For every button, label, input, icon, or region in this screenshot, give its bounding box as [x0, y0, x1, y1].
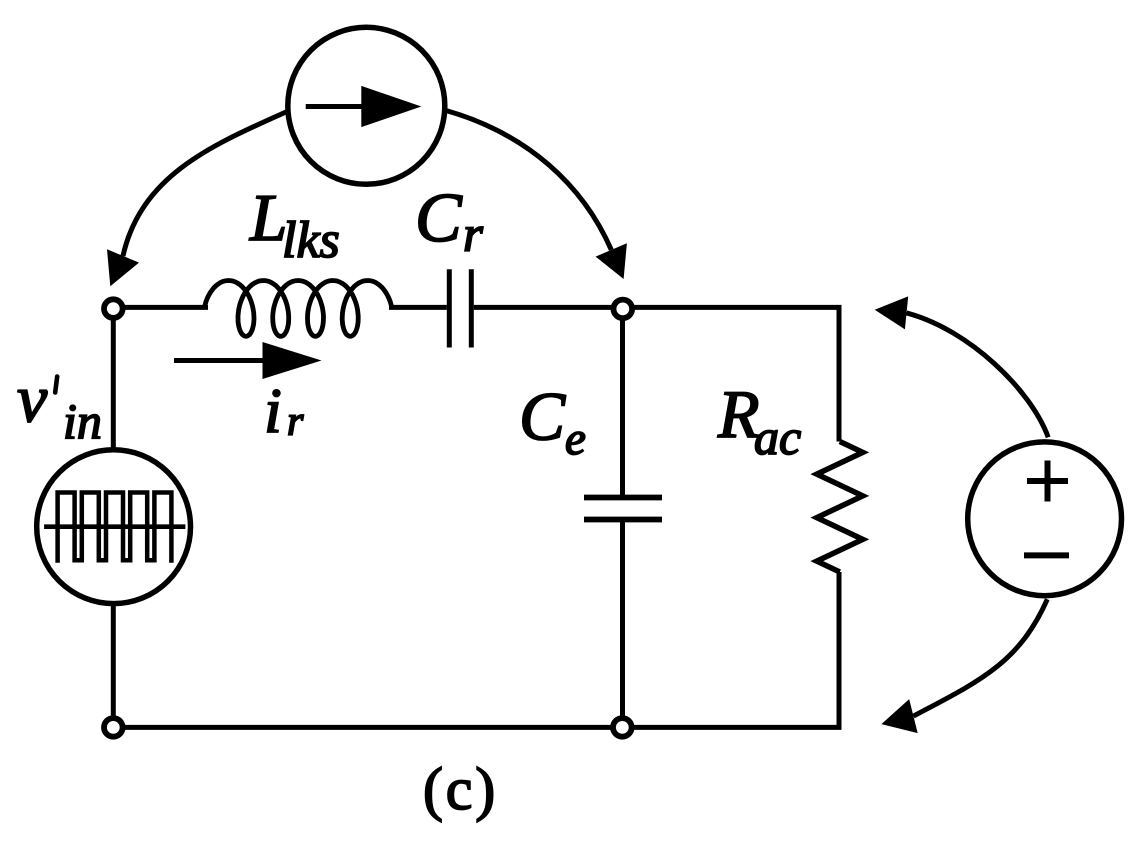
minus sign [1024, 552, 1069, 558]
capacitor Ce plates [584, 498, 662, 520]
svg-text:e: e [565, 413, 586, 465]
wire: top-left node to inductor [113, 305, 208, 310]
svg-text:r: r [287, 399, 304, 445]
wire: top coupling arc left curve [123, 112, 286, 256]
wire: top coupling arc right curve [446, 111, 611, 250]
svg-text:lks: lks [282, 212, 340, 269]
wire: inductor to capacitor Cr [389, 305, 447, 310]
inductor Llks [204, 281, 392, 337]
right coupling bottom curved arrow [881, 599, 1047, 733]
node top-middle [614, 300, 633, 319]
svg-text:ac: ac [754, 409, 801, 465]
right coupling top curved arrow [875, 296, 1048, 437]
label Llks [249, 181, 340, 269]
svg-text:C: C [415, 180, 463, 257]
wire: top-middle node down to Ce [620, 307, 625, 495]
node bottom-left [104, 718, 123, 737]
label Cr [415, 180, 483, 263]
voltage source circle (right) [968, 442, 1122, 596]
resistor Rac zigzag [817, 442, 863, 573]
label Ce [519, 379, 586, 466]
voltage source vin circle [37, 450, 191, 604]
capacitor Cr plates [449, 269, 471, 347]
node top-left [104, 299, 123, 318]
wire: top-middle node to top-right corner, down right branch [623, 307, 839, 441]
caption (c) [423, 756, 498, 822]
svg-text:C: C [519, 379, 566, 455]
wire: bottom middle to bottom-left node [113, 725, 622, 730]
label Rac [717, 376, 801, 465]
svg-text:i: i [264, 375, 282, 446]
label ir [264, 375, 304, 446]
plus sign [1027, 461, 1068, 502]
svg-text:v: v [17, 360, 48, 436]
wire: source vin down to bottom-left node [111, 603, 116, 727]
svg-text:(c): (c) [423, 756, 498, 822]
current source arrow [306, 86, 422, 127]
square wave symbol inside vin [44, 493, 185, 563]
arrowhead of left coupling arc [107, 249, 139, 286]
svg-text:r: r [463, 207, 483, 263]
wire: below resistor to bottom-right corner [622, 572, 839, 727]
svg-text:in: in [63, 393, 102, 449]
wire: Cr to top-middle node [474, 305, 623, 310]
node bottom-middle [613, 718, 632, 737]
current source circle (top) [288, 27, 445, 184]
wire: top-left node down to source vin [111, 307, 116, 450]
current arrow ir [174, 342, 322, 379]
label vin [17, 360, 102, 449]
arrowhead of right coupling arc [596, 243, 627, 279]
wire: Ce to bottom-middle node [620, 522, 625, 727]
